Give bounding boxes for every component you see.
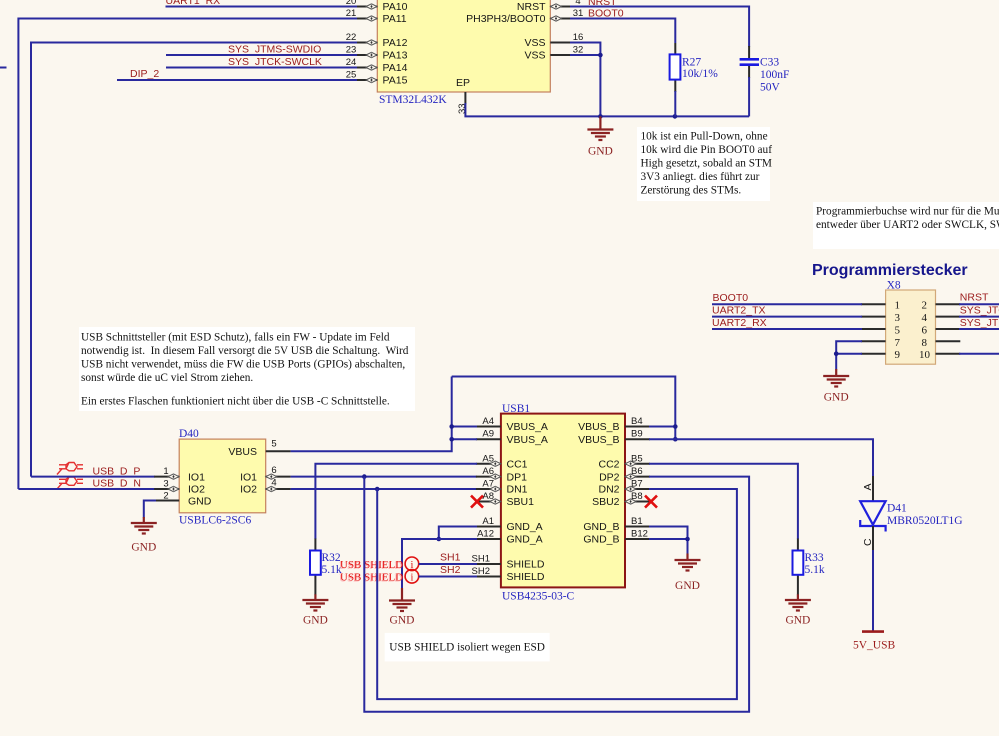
connector USB1 body <box>501 403 625 603</box>
note box USB SHIELD isoliert <box>385 633 550 662</box>
svg-text:SYS_JTCK-SWCLK: SYS_JTCK-SWCLK <box>960 305 999 317</box>
U1 right pin stubs pins 4,31,16,32 <box>550 7 570 56</box>
svg-text:DN2: DN2 <box>598 484 619 496</box>
wire BOOT0 to pin1 <box>712 303 862 305</box>
svg-text:PH3PH3/BOOT0: PH3PH3/BOOT0 <box>466 13 546 25</box>
U1 left pin stubs pins 20-25 <box>356 7 377 81</box>
svg-text:B12: B12 <box>631 529 648 540</box>
svg-text:VSS: VSS <box>524 50 545 62</box>
svg-text:2: 2 <box>163 491 168 502</box>
svg-text:D40: D40 <box>179 428 199 440</box>
svg-text:R33: R33 <box>805 552 824 564</box>
svg-text:IO2: IO2 <box>188 484 205 496</box>
svg-text:SBU1: SBU1 <box>507 496 535 508</box>
svg-text:SHIELD: SHIELD <box>507 571 545 583</box>
X8 pin numbers 1-10 <box>895 300 931 362</box>
svg-text:GND: GND <box>675 580 700 592</box>
wire SH2 <box>419 576 477 578</box>
svg-text:USB SHIELD isoliert wegen ESD: USB SHIELD isoliert wegen ESD <box>389 642 545 654</box>
wire CC1 to R32 <box>315 464 477 539</box>
svg-text:STM32L432K: STM32L432K <box>379 94 447 106</box>
svg-text:Programmierbuchse wird nur für: Programmierbuchse wird nur für die Muste… <box>816 206 999 218</box>
note box 10k pull-down <box>637 127 772 201</box>
svg-text:5: 5 <box>271 439 276 450</box>
no-connect X at SBU1 A8 <box>471 496 483 508</box>
svg-text:R27: R27 <box>682 57 701 69</box>
wire NRST pin4 to C33 <box>570 7 749 48</box>
USB1 right pin stubs B4,B9,B5,B6,B7,B8,B1,B12 <box>625 427 650 540</box>
svg-text:UART2_RX: UART2_RX <box>712 317 767 329</box>
U1 right pin ERC markers <box>551 4 562 21</box>
wire pin6 <box>959 328 999 330</box>
ground symbol R33 <box>785 594 811 626</box>
svg-text:Ein erstes Flaschen funktionie: Ein erstes Flaschen funktioniert nicht ü… <box>81 396 390 408</box>
wire D40 IO1 pin6 to USB1 DP1 <box>291 476 477 478</box>
svg-text:A9: A9 <box>482 429 494 440</box>
svg-text:3: 3 <box>895 312 901 324</box>
junction GND rail at 600 <box>598 114 603 119</box>
svg-text:IO2: IO2 <box>240 484 257 496</box>
svg-text:D41: D41 <box>887 503 907 515</box>
wire VSS16 <box>570 43 600 56</box>
wire B5 CC2 to R33 <box>649 464 798 539</box>
svg-text:SHIELD: SHIELD <box>507 559 545 571</box>
junction B12 <box>685 537 690 542</box>
svg-text:C33: C33 <box>760 57 779 69</box>
D40 left pin numbers <box>163 466 168 502</box>
USB1 left pin stubs A4,A9,A5,A6,A7,A8,A1,A12,SH1,SH2 <box>476 427 501 577</box>
svg-text:MBR0520LT1G: MBR0520LT1G <box>887 515 963 527</box>
svg-text:USB1: USB1 <box>502 403 530 415</box>
svg-text:A1: A1 <box>482 516 494 527</box>
wire D40 IO2 pin4 to USB1 DN1 <box>291 488 477 490</box>
wire UART2_RX to pin5 <box>712 328 862 330</box>
capacitor C33 <box>740 46 759 116</box>
wire A9 to VBUS vertical <box>452 438 477 440</box>
junction X8 ground <box>834 351 839 356</box>
no-connect X at SBU2 B8 <box>645 496 657 508</box>
svg-text:9: 9 <box>895 349 901 361</box>
ground symbol X8 <box>823 369 849 404</box>
svg-text:5.1k: 5.1k <box>805 564 825 576</box>
svg-text:5V_USB: 5V_USB <box>853 640 896 652</box>
U1 left pin ERC markers <box>366 4 377 83</box>
wire A4 to VBUS vertical <box>452 426 477 428</box>
wire VSS32 to GND <box>570 55 600 116</box>
svg-text:10k/1%: 10k/1% <box>682 68 718 80</box>
D40 right pin stubs 5,6,4 <box>266 451 291 489</box>
U1 left pin numbers 20-25 <box>346 0 357 81</box>
junction A12 <box>437 537 442 542</box>
diode D41 MBR0520LT1G <box>860 476 885 631</box>
USB1 left ERC markers <box>490 461 501 504</box>
svg-text:VBUS_B: VBUS_B <box>578 434 619 446</box>
wire pin4 <box>959 316 999 318</box>
junction GND rail at R27 <box>673 114 678 119</box>
net label USB SHIELD SH1 <box>339 559 403 572</box>
svg-text:IO1: IO1 <box>240 471 257 483</box>
wire GND to pin9 <box>836 353 862 355</box>
wire SYS_JTMS-SWDIO to PA13 <box>166 54 357 56</box>
resistor R32 <box>310 539 321 595</box>
svg-text:7: 7 <box>895 337 901 349</box>
wire D40 VBUS pin5 to VBUS_A vertical <box>291 377 452 452</box>
USB1 left pin names <box>507 421 548 583</box>
wire DIP_2 to PA15 <box>117 79 357 81</box>
wire B12 to GND <box>649 539 688 554</box>
IC D40 body <box>179 428 266 527</box>
svg-text:Zerstörung des STMs.: Zerstörung des STMs. <box>641 185 742 197</box>
USB1 right pin designators <box>631 416 648 540</box>
ground symbol GND_A <box>389 588 415 627</box>
note box USB Schnittsteller <box>79 327 415 411</box>
wire VBUS_B vertical <box>674 376 676 440</box>
svg-text:10: 10 <box>919 349 931 361</box>
R32 value labels <box>322 552 342 576</box>
junction DP1 <box>362 474 367 479</box>
svg-text:8: 8 <box>922 337 928 349</box>
svg-text:sonst würde die uC viel Strom: sonst würde die uC viel Strom ziehen. <box>81 372 253 384</box>
power port 5V_USB <box>853 632 896 652</box>
svg-text:USB4235-03-C: USB4235-03-C <box>502 591 575 603</box>
svg-text:B4: B4 <box>631 416 643 427</box>
svg-text:PA15: PA15 <box>383 75 408 87</box>
svg-text:PA13: PA13 <box>383 50 408 62</box>
svg-text:DP1: DP1 <box>507 471 528 483</box>
svg-text:GND_B: GND_B <box>583 534 619 546</box>
wire GND to pin7 <box>836 341 862 369</box>
D40 right ERC markers <box>266 474 277 492</box>
svg-text:UART2_TX: UART2_TX <box>712 305 766 317</box>
R33 value labels <box>805 552 825 576</box>
svg-text:GND_A: GND_A <box>507 534 543 546</box>
svg-text:21: 21 <box>346 8 357 19</box>
svg-text:GND: GND <box>303 615 328 627</box>
D40 left ERC markers <box>168 474 179 492</box>
wire SYS_JTCK-SWCLK to PA14 <box>166 67 357 69</box>
D40 right pin numbers <box>271 439 276 489</box>
wire UART2_TX to pin3 <box>712 316 862 318</box>
svg-text:C: C <box>862 538 874 546</box>
svg-text:PA10: PA10 <box>383 1 408 13</box>
resistor R33 <box>793 539 804 595</box>
wire D40 GND pin2 <box>144 501 156 518</box>
svg-text:IO1: IO1 <box>188 471 205 483</box>
junction DN1 <box>375 487 380 492</box>
USB1 right ERC markers <box>625 461 636 504</box>
svg-text:25: 25 <box>346 70 357 81</box>
USB1 right pin names <box>578 421 620 546</box>
note box Programmierbuchse <box>813 202 999 249</box>
svg-text:B1: B1 <box>631 516 643 527</box>
svg-text:BOOT0: BOOT0 <box>713 292 749 304</box>
svg-text:DIP_2: DIP_2 <box>130 68 159 80</box>
svg-text:X8: X8 <box>887 280 901 292</box>
ground symbol GND_B <box>675 554 701 593</box>
svg-text:DN1: DN1 <box>507 484 528 496</box>
svg-text:6: 6 <box>922 324 928 336</box>
wire pin10 <box>959 353 999 355</box>
svg-text:VBUS_B: VBUS_B <box>578 421 619 433</box>
svg-text:SH1: SH1 <box>472 554 490 565</box>
svg-text:SYS_JTMS-SWDIO: SYS_JTMS-SWDIO <box>228 44 321 56</box>
svg-text:SBU2: SBU2 <box>592 496 620 508</box>
net label USB SHIELD SH2 <box>339 572 403 585</box>
svg-text:USB SHIELD: USB SHIELD <box>340 572 403 584</box>
wire SH1 <box>419 563 477 565</box>
svg-text:GND: GND <box>824 392 849 404</box>
ground symbol under VSS <box>587 116 613 157</box>
svg-text:DP2: DP2 <box>599 471 620 483</box>
wire USB_D_N to D40 pin3 <box>18 488 155 490</box>
wire BOOT0 pin31 to R27 <box>570 19 675 44</box>
svg-text:USBLC6-2SC6: USBLC6-2SC6 <box>179 515 251 527</box>
svg-text:VBUS_A: VBUS_A <box>507 421 548 433</box>
svg-text:16: 16 <box>573 32 584 43</box>
svg-text:SYS_JTMS-SWDIO: SYS_JTMS-SWDIO <box>960 317 999 329</box>
svg-text:USB SHIELD: USB SHIELD <box>340 559 403 571</box>
wire EP to GND rail <box>465 103 749 116</box>
svg-text:5: 5 <box>895 324 901 336</box>
svg-text:SYS_JTCK-SWCLK: SYS_JTCK-SWCLK <box>228 56 322 68</box>
svg-text:GND: GND <box>131 542 156 554</box>
svg-text:USB nicht verwendet, müss die: USB nicht verwendet, müss die FW die USB… <box>81 359 405 371</box>
svg-text:GND_A: GND_A <box>507 521 543 533</box>
R27 value labels <box>682 57 718 81</box>
U1 right pin names NRST PH3/BOOT0 VSS VSS EP <box>456 1 546 89</box>
svg-text:10k ist ein Pull-Down, ohne: 10k ist ein Pull-Down, ohne <box>641 131 768 143</box>
ground symbol D40 <box>131 517 157 554</box>
USB1 left pin designators <box>472 416 494 577</box>
svg-text:3: 3 <box>163 479 168 490</box>
wire USB_D_P to D40 pin1 <box>31 476 155 478</box>
svg-text:VBUS: VBUS <box>228 446 257 458</box>
wire A1 to A12 <box>439 527 477 540</box>
ground symbol R32 <box>302 594 328 626</box>
svg-text:31: 31 <box>573 8 584 19</box>
U1 right pin numbers <box>573 0 584 56</box>
svg-text:1: 1 <box>895 300 901 312</box>
C33 value labels <box>760 57 789 94</box>
junction VBUS_B B9 <box>673 437 678 442</box>
wire B4 to VBUS_B vertical <box>649 426 675 428</box>
svg-text:50V: 50V <box>760 82 781 94</box>
svg-text:A4: A4 <box>482 416 494 427</box>
wire B1 to B12 <box>649 527 688 540</box>
svg-text:24: 24 <box>346 57 357 68</box>
wire B9 to D41 anode <box>649 439 873 477</box>
X8 left pin stubs 1,3,5,7,9 <box>861 304 886 354</box>
svg-text:B9: B9 <box>631 429 643 440</box>
svg-text:SH2: SH2 <box>472 566 490 577</box>
svg-text:i: i <box>410 573 413 584</box>
X8 right pin stubs 2,4,6,8,10 <box>936 304 961 354</box>
svg-text:A: A <box>862 483 874 490</box>
svg-text:PA12: PA12 <box>383 37 408 49</box>
svg-text:PA11: PA11 <box>383 13 407 25</box>
svg-text:EP: EP <box>456 77 470 89</box>
svg-text:22: 22 <box>346 32 357 43</box>
svg-text:notwendig ist. In diesem Fall: notwendig ist. In diesem Fall versorgt d… <box>81 345 409 357</box>
svg-text:GND: GND <box>390 615 415 627</box>
wire B6 DP2 loop to DP1 <box>364 477 749 712</box>
svg-text:USB_D_P: USB_D_P <box>93 465 141 477</box>
svg-text:GND: GND <box>785 615 810 627</box>
junction VBUS_A A9 <box>449 437 454 442</box>
U1 left pin names PA10-PA15 <box>383 1 408 87</box>
svg-text:3V3 anliegt. dies führt zur: 3V3 anliegt. dies führt zur <box>641 171 760 183</box>
svg-text:23: 23 <box>346 45 357 56</box>
differential pair marker USB_D_N <box>57 477 83 489</box>
wire UART1_RX to PA10 <box>166 6 358 8</box>
svg-text:GND_B: GND_B <box>583 521 619 533</box>
svg-text:A12: A12 <box>477 529 494 540</box>
D40 pin names <box>188 446 257 508</box>
junction VBUS_A A4 <box>449 424 454 429</box>
svg-text:entweder über UART2 oder SWCLK: entweder über UART2 oder SWCLK, SWD <box>816 219 999 231</box>
svg-text:32: 32 <box>573 45 584 56</box>
svg-text:4: 4 <box>922 312 928 324</box>
wire B7 DN2 loop to DN1 <box>377 489 737 699</box>
no-ERC marker circle SH1 <box>405 557 419 571</box>
IC U1 STM32L432K body <box>377 0 550 106</box>
junction VSS <box>598 53 603 58</box>
svg-text:R32: R32 <box>322 552 341 564</box>
svg-text:CC1: CC1 <box>507 459 528 471</box>
svg-text:CC2: CC2 <box>598 459 619 471</box>
wire top loop VBUS_A to VBUS_B <box>452 376 676 378</box>
connector X8 body <box>886 280 936 365</box>
svg-text:Programmierstecker: Programmierstecker <box>812 262 968 279</box>
svg-text:VBUS_A: VBUS_A <box>507 434 548 446</box>
svg-text:1: 1 <box>163 466 168 477</box>
svg-text:SH2: SH2 <box>440 564 461 576</box>
junction VBUS_B B4 <box>673 424 678 429</box>
svg-text:PA14: PA14 <box>383 62 408 74</box>
svg-text:VSS: VSS <box>524 37 545 49</box>
wire A12 to GND <box>402 539 477 589</box>
svg-text:GND: GND <box>588 146 613 158</box>
svg-text:High gesetzt, sobald an STM: High gesetzt, sobald an STM <box>641 158 772 170</box>
D40 left pin stubs 1,3,2 <box>154 477 179 501</box>
wire stub at left edge <box>0 67 7 69</box>
wire PA12 to USB_D_P vertical <box>31 43 357 477</box>
svg-text:10k wird die Pin BOOT0 auf: 10k wird die Pin BOOT0 auf <box>641 144 773 156</box>
resistor R27 <box>670 43 681 116</box>
svg-text:GND: GND <box>188 496 212 508</box>
D41 value labels <box>887 503 963 528</box>
svg-text:NRST: NRST <box>517 1 546 13</box>
no-ERC marker circle SH2 <box>405 570 419 584</box>
svg-text:SH1: SH1 <box>440 552 461 564</box>
wire PA11 to USB_D_N vertical <box>18 19 357 490</box>
svg-text:100nF: 100nF <box>760 69 789 81</box>
svg-text:USB_D_N: USB_D_N <box>93 478 141 490</box>
svg-text:USB Schnittsteller (mit ESD Sc: USB Schnittsteller (mit ESD Schutz), fal… <box>81 332 390 344</box>
svg-text:NRST: NRST <box>960 292 989 304</box>
wire pin2 NRST <box>959 303 999 305</box>
differential pair marker USB_D_P <box>57 463 83 475</box>
svg-text:2: 2 <box>922 300 928 312</box>
U1 EP pin 33 stub <box>457 92 468 114</box>
